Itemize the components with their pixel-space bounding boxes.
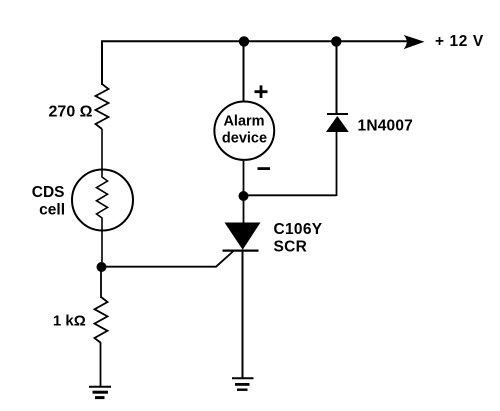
wire left branch top (101, 40, 103, 85)
wire diode to horizontal connector (336, 132, 338, 196)
SCR C106Y triangle (225, 223, 261, 250)
diode 1N4007 triangle (326, 116, 349, 132)
svg-text:1N4007: 1N4007 (358, 117, 414, 134)
svg-text:Alarm: Alarm (223, 114, 264, 130)
wire junction to 1k resistor (100, 267, 102, 298)
node SCR anode junction dot (239, 191, 249, 201)
wire resistor to CDS cell (101, 129, 103, 170)
CDS cell inner zigzag (97, 170, 108, 262)
photoresistor CDS cell circle (72, 170, 133, 231)
wire diode branch top (336, 41, 338, 114)
SCR cathode bar (223, 250, 259, 252)
alarm device circle (214, 102, 274, 160)
wire junction to diode branch horizontal (244, 194, 337, 196)
label plus terminal (255, 85, 268, 98)
resistor R 1k (95, 297, 108, 343)
ground right (232, 377, 254, 379)
wire 1k resistor to ground (100, 343, 102, 387)
node top rail alarm junction dot (239, 36, 249, 46)
svg-text:270 Ω: 270 Ω (49, 104, 93, 121)
wire junction to SCR (243, 196, 245, 223)
svg-text:CDS: CDS (32, 184, 65, 201)
label minus terminal (258, 167, 271, 170)
diode 1N4007 cathode bar (327, 113, 348, 115)
node gate junction dot (97, 262, 107, 272)
wire alarm branch top (243, 41, 245, 101)
resistor R 270 ohm (96, 84, 109, 129)
node top rail diode junction dot (331, 36, 341, 46)
svg-text:SCR: SCR (274, 238, 308, 255)
svg-text:device: device (222, 130, 267, 146)
wire SCR cathode to ground (242, 251, 244, 378)
wire top rail +12V (102, 40, 410, 42)
svg-text:1 kΩ: 1 kΩ (53, 313, 86, 330)
ground left (89, 386, 111, 388)
svg-text:cell: cell (39, 202, 65, 219)
wire alarm to junction (243, 161, 245, 196)
svg-text:+ 12 V: + 12 V (435, 33, 484, 50)
arrowhead +12V (404, 35, 425, 49)
svg-text:C106Y: C106Y (274, 221, 323, 238)
SCR gate wire (102, 251, 234, 267)
